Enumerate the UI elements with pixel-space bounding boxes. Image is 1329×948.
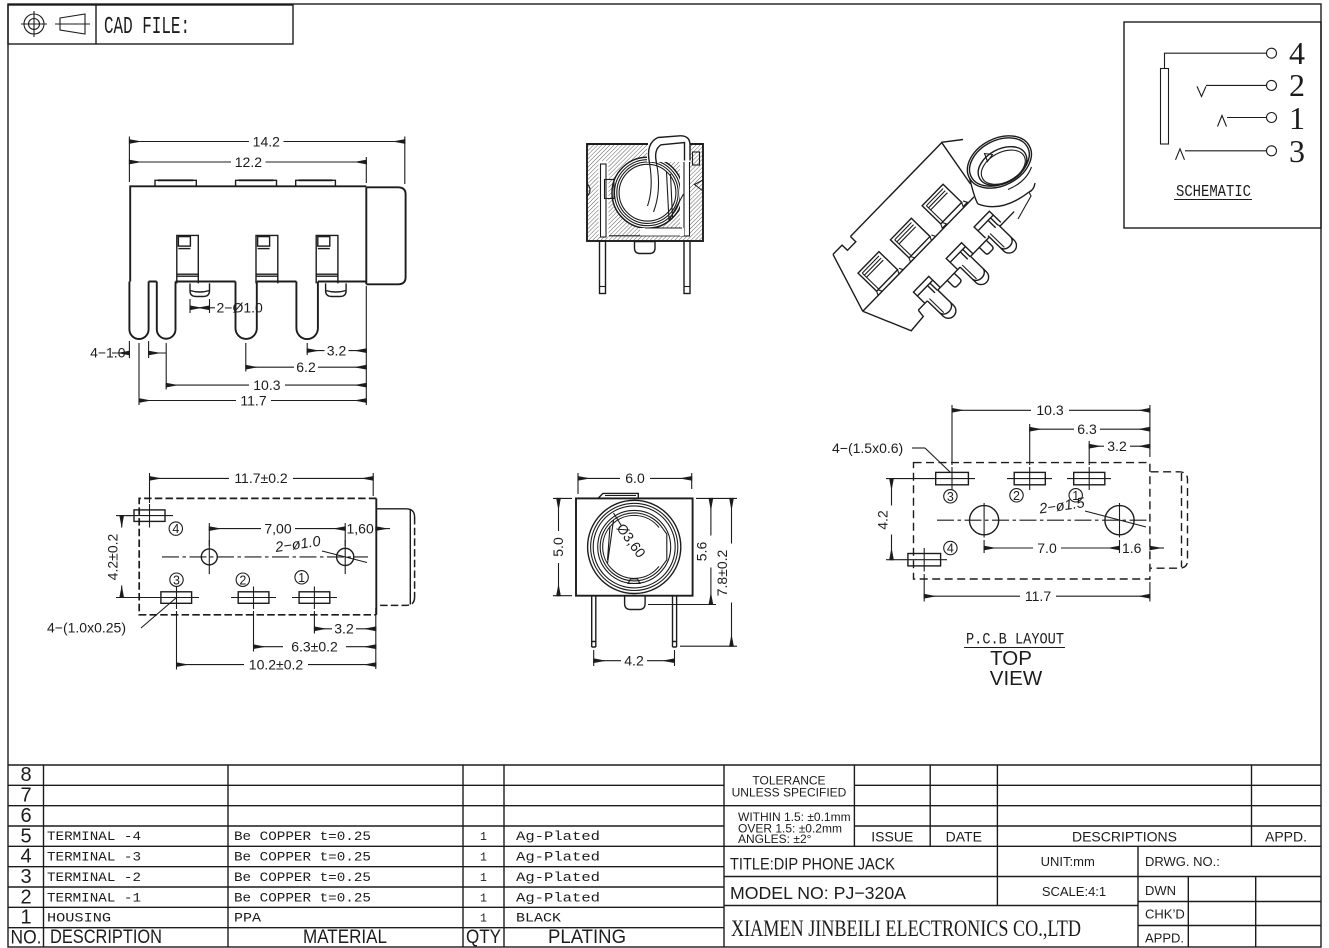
svg-text:UNIT:mm: UNIT:mm [1041, 854, 1095, 869]
svg-text:2−ø1.5: 2−ø1.5 [1037, 495, 1086, 517]
svg-text:DRWG. NO.:: DRWG. NO.: [1145, 854, 1220, 869]
svg-text:TERMINAL -1: TERMINAL -1 [47, 892, 141, 906]
svg-text:Ag-Plated: Ag-Plated [516, 830, 600, 844]
svg-text:Be COPPER t=0.25: Be COPPER t=0.25 [234, 892, 371, 906]
svg-text:6: 6 [20, 805, 31, 827]
svg-text:6.0: 6.0 [625, 470, 645, 486]
svg-text:3: 3 [1289, 133, 1305, 169]
svg-text:3.2: 3.2 [1107, 438, 1127, 454]
svg-text:MODEL NO: PJ−320A: MODEL NO: PJ−320A [730, 883, 906, 903]
svg-text:5: 5 [20, 826, 31, 848]
svg-text:SCALE:4:1: SCALE:4:1 [1042, 884, 1106, 899]
svg-text:DWN: DWN [1145, 883, 1176, 898]
svg-text:P.C.B LAYOUT: P.C.B LAYOUT [966, 631, 1064, 649]
svg-text:1.6: 1.6 [1122, 540, 1142, 556]
svg-text:12.2: 12.2 [235, 154, 262, 170]
svg-text:1: 1 [20, 907, 31, 929]
svg-text:1: 1 [298, 571, 305, 585]
svg-text:4: 4 [947, 542, 954, 556]
svg-text:ISSUE: ISSUE [871, 829, 913, 845]
svg-text:2: 2 [239, 573, 246, 587]
svg-text:XIAMEN JINBEILI ELECTRONICS CO: XIAMEN JINBEILI ELECTRONICS CO.,LTD [731, 916, 1081, 941]
svg-text:Ag-Plated: Ag-Plated [516, 871, 600, 885]
svg-text:6.3: 6.3 [1077, 421, 1097, 437]
svg-text:APPD.: APPD. [1265, 829, 1307, 845]
svg-text:10.3: 10.3 [253, 377, 280, 393]
svg-text:PPA: PPA [234, 912, 262, 926]
svg-text:1: 1 [480, 893, 487, 906]
svg-text:BLACK: BLACK [516, 912, 562, 926]
svg-text:1: 1 [480, 852, 487, 865]
svg-text:10.2±0.2: 10.2±0.2 [249, 656, 304, 672]
svg-text:4−(1.5x0.6): 4−(1.5x0.6) [832, 440, 903, 456]
svg-text:4−1.0: 4−1.0 [90, 345, 126, 361]
svg-text:3: 3 [20, 866, 31, 888]
svg-text:3: 3 [947, 490, 954, 504]
svg-text:Be COPPER t=0.25: Be COPPER t=0.25 [234, 830, 371, 844]
svg-text:6.2: 6.2 [296, 359, 316, 375]
svg-text:7: 7 [20, 785, 31, 807]
svg-text:8: 8 [20, 764, 31, 786]
svg-text:4.2±0.2: 4.2±0.2 [105, 533, 121, 580]
svg-text:2: 2 [20, 887, 31, 909]
svg-text:CHK’D: CHK’D [1145, 907, 1185, 922]
svg-text:TERMINAL -2: TERMINAL -2 [47, 871, 141, 885]
svg-text:PLATING: PLATING [548, 927, 626, 948]
svg-text:4: 4 [172, 522, 179, 536]
svg-text:TERMINAL -4: TERMINAL -4 [47, 830, 141, 844]
svg-text:Be COPPER t=0.25: Be COPPER t=0.25 [234, 851, 371, 865]
svg-text:4.2: 4.2 [875, 510, 891, 530]
svg-text:1,60: 1,60 [347, 520, 374, 536]
svg-text:1: 1 [1289, 100, 1305, 136]
svg-text:Ag-Plated: Ag-Plated [516, 851, 600, 865]
svg-text:4−(1.0x0.25): 4−(1.0x0.25) [47, 620, 126, 636]
svg-text:TITLE:DIP PHONE JACK: TITLE:DIP PHONE JACK [730, 855, 896, 874]
svg-text:5.0: 5.0 [550, 537, 566, 557]
svg-text:3: 3 [173, 573, 180, 587]
svg-text:10.3: 10.3 [1036, 402, 1063, 418]
svg-text:Ø3,60: Ø3,60 [614, 520, 649, 560]
svg-text:11.7: 11.7 [1025, 588, 1051, 604]
svg-text:2−Ø1.0: 2−Ø1.0 [217, 300, 264, 316]
svg-text:ANGLES: ±2°: ANGLES: ±2° [738, 832, 812, 846]
svg-text:2−ø1.0: 2−ø1.0 [273, 534, 321, 556]
svg-text:2: 2 [1289, 67, 1305, 103]
svg-text:11.7: 11.7 [240, 392, 266, 408]
svg-text:NO.: NO. [11, 928, 42, 948]
svg-text:4.2: 4.2 [624, 653, 644, 669]
svg-text:1: 1 [480, 872, 487, 885]
svg-text:11.7±0.2: 11.7±0.2 [234, 470, 288, 486]
svg-text:14.2: 14.2 [253, 133, 280, 149]
svg-text:3.2: 3.2 [334, 621, 354, 637]
svg-text:CAD FILE:: CAD FILE: [104, 14, 190, 41]
svg-text:APPD.: APPD. [1145, 931, 1184, 946]
svg-text:HOUSING: HOUSING [47, 912, 111, 926]
svg-text:7,00: 7,00 [264, 520, 291, 536]
svg-text:DESCRIPTION: DESCRIPTION [50, 927, 162, 948]
svg-text:1: 1 [480, 831, 487, 844]
svg-text:4: 4 [1289, 35, 1305, 71]
svg-text:1: 1 [480, 913, 487, 926]
svg-text:7.8±0.2: 7.8±0.2 [714, 549, 730, 596]
svg-text:MATERIAL: MATERIAL [303, 927, 387, 948]
svg-text:7.0: 7.0 [1037, 540, 1057, 556]
svg-text:VIEW: VIEW [990, 667, 1043, 690]
svg-text:DATE: DATE [946, 829, 982, 845]
svg-text:3.2: 3.2 [327, 342, 347, 358]
svg-text:6.3±0.2: 6.3±0.2 [291, 639, 338, 655]
svg-text:2: 2 [1013, 489, 1020, 503]
svg-text:UNLESS SPECIFIED: UNLESS SPECIFIED [732, 786, 847, 800]
svg-text:DESCRIPTIONS: DESCRIPTIONS [1072, 829, 1177, 845]
svg-text:TERMINAL -3: TERMINAL -3 [47, 851, 141, 865]
svg-text:4: 4 [20, 846, 31, 868]
svg-text:QTY: QTY [466, 927, 501, 948]
svg-text:Ag-Plated: Ag-Plated [516, 892, 600, 906]
svg-text:Be COPPER t=0.25: Be COPPER t=0.25 [234, 871, 371, 885]
svg-text:5.6: 5.6 [694, 542, 710, 562]
